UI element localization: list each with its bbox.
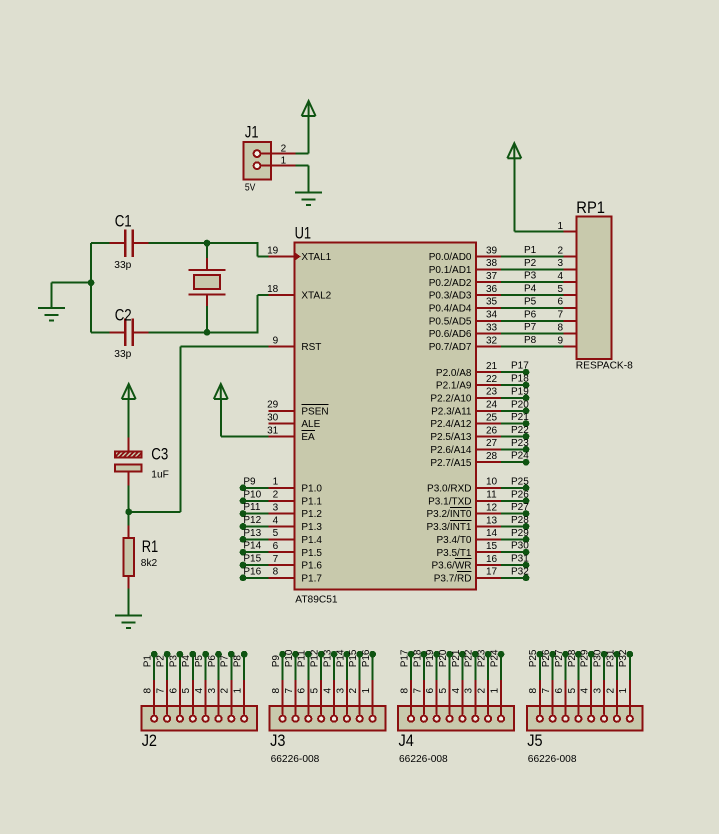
svg-text:P24: P24 [511,451,529,462]
RP1 pin 2 stub [564,256,577,258]
svg-text:1: 1 [361,688,372,694]
svg-text:7: 7 [273,554,279,565]
J5 pin 6 lead [565,679,567,715]
J3 pin 6 lead [307,679,309,715]
pin 38 P0.1 stub [476,268,502,270]
wire net P15 [359,654,361,680]
svg-text:P1.0: P1.0 [301,484,322,495]
svg-text:33p: 33p [114,349,131,360]
node P22 [523,433,530,440]
svg-text:P2.6/A14: P2.6/A14 [430,445,472,456]
wire net P26 [552,654,554,680]
pin 24 P2.3 stub [476,410,502,412]
svg-text:P1: P1 [524,245,537,256]
wire net P9 [243,487,269,489]
pin 32 P0.7 stub [476,346,502,348]
pin 19 XTAL1 stub [269,256,295,258]
wire net P26 [501,500,526,502]
J3 pin 2 circle [357,716,363,722]
svg-text:5V: 5V [245,183,256,194]
J2 pin 1 circle [241,716,247,722]
J4 pin 1 circle [498,716,504,722]
wire net P32 [501,577,526,579]
svg-text:P18: P18 [412,649,423,667]
wire net P29 [501,538,526,540]
J2 pin 5 lead [192,679,194,715]
node P16 [240,575,247,582]
node junction C2/crystal [204,329,211,336]
J5 pin 7 circle [550,716,556,722]
wire net P25 [501,487,526,489]
svg-text:P32: P32 [618,649,629,667]
wire net P27 [565,654,567,680]
svg-text:27: 27 [486,438,498,449]
RP1 pin 1 stub [564,230,577,232]
svg-text:P2.7/A15: P2.7/A15 [430,458,472,469]
svg-text:J3: J3 [270,731,285,750]
node P4 [189,651,196,658]
svg-text:4: 4 [273,515,279,526]
node P18 [421,651,428,658]
wire net P23 [487,654,489,680]
overline P3.3/INT1 [450,520,472,522]
J4 pin 2 lead [487,679,489,715]
svg-text:P28: P28 [567,649,578,667]
wire net P7 to RP1 [501,333,564,335]
wire net P7 [230,654,232,680]
RP1 pin 8 stub [564,333,577,335]
pin 39 P0.0 stub [476,256,502,258]
J2 pin 6 lead [179,679,181,715]
svg-text:66226-008: 66226-008 [399,754,448,765]
wire net P17 [410,654,412,680]
node P27 [523,510,530,517]
wire left vertical C1-C2 [90,243,92,332]
svg-text:P12: P12 [310,649,321,667]
svg-text:R1: R1 [142,537,159,556]
J3 pin 4 circle [331,716,337,722]
node P30 [523,549,530,556]
svg-text:P10: P10 [243,489,261,500]
wire to left ground [52,282,91,284]
pin 2 P1.1 stub [269,500,295,502]
node P5 [202,651,209,658]
svg-text:P15: P15 [348,649,359,667]
svg-text:P3.3/INT1: P3.3/INT1 [426,522,471,533]
svg-text:5: 5 [310,688,321,694]
node P10 [240,497,247,504]
wire net P14 [243,551,269,553]
node P1 [151,651,158,658]
J3 pin 8 lead [282,679,284,715]
node P13 [240,536,247,543]
J4 pin 6 lead [436,679,438,715]
wire net P8 to RP1 [501,346,564,348]
pin 13 P3.3 stub [476,526,502,528]
svg-text:7: 7 [284,688,295,694]
svg-text:J1: J1 [245,122,259,141]
svg-text:U1: U1 [295,224,312,243]
svg-text:P20: P20 [511,399,529,410]
J4 pin 5 circle [447,716,453,722]
svg-text:P2.2/A10: P2.2/A10 [430,394,472,405]
wire net P12 [243,526,269,528]
pin 29 PSEN stub [269,410,295,412]
svg-text:2: 2 [220,688,231,694]
wire net P6 [218,654,220,680]
svg-text:P5: P5 [524,296,537,307]
wire R1 to ground [128,589,130,616]
svg-text:RST: RST [301,342,321,353]
J4 pin 8 lead [410,679,412,715]
pin 26 P2.5 stub [476,436,502,438]
svg-text:P25: P25 [511,476,529,487]
svg-text:P0.4/AD4: P0.4/AD4 [429,304,472,315]
svg-text:P28: P28 [511,515,529,526]
svg-text:P1.2: P1.2 [301,509,322,520]
pin 8 P1.7 stub [269,577,295,579]
J4 pin 1 lead [500,679,502,715]
RP1 pin 4 stub [564,281,577,283]
connector J5 [527,706,643,765]
svg-text:P3.6/WR: P3.6/WR [431,561,471,572]
svg-text:4: 4 [557,271,563,282]
svg-text:P1: P1 [143,655,154,668]
connector J3 [270,706,386,765]
ground (left) [38,308,65,321]
svg-text:P1.5: P1.5 [301,548,322,559]
node P17 [523,369,530,376]
svg-text:3: 3 [335,688,346,694]
svg-text:P0.3/AD3: P0.3/AD3 [429,291,472,302]
svg-text:AT89C51: AT89C51 [295,595,338,606]
svg-text:RESPACK-8: RESPACK-8 [576,361,633,372]
svg-text:66226-008: 66226-008 [271,754,320,765]
node P12 [240,523,247,530]
wire net P8 [243,654,245,680]
wire C1 row [91,242,110,244]
svg-text:1uF: 1uF [151,470,169,481]
svg-text:P31: P31 [511,554,529,565]
J1 pin 2 lead [260,153,296,155]
svg-text:10: 10 [486,477,498,488]
svg-text:23: 23 [486,387,498,398]
wire net P9 [282,654,284,680]
svg-text:P24: P24 [489,649,500,667]
J2 pin 2 lead [230,679,232,715]
svg-text:5: 5 [567,688,578,694]
svg-text:3: 3 [464,688,475,694]
J2 pin 3 lead [218,679,220,715]
wire net P5 [205,654,207,680]
J1 pin 2 circle [254,150,261,157]
pin 23 P2.2 stub [476,397,502,399]
svg-text:8: 8 [557,322,563,333]
svg-text:J2: J2 [142,731,157,750]
svg-text:P6: P6 [207,655,218,668]
svg-text:8: 8 [399,688,410,694]
svg-text:P19: P19 [425,649,436,667]
svg-text:P2: P2 [156,655,167,668]
J3 pin 5 circle [318,716,324,722]
J4 pin 7 circle [421,716,427,722]
wire net P1 to RP1 [501,256,564,258]
svg-text:P3.4/T0: P3.4/T0 [436,535,471,546]
svg-text:29: 29 [267,400,279,411]
svg-text:3: 3 [593,688,604,694]
pin 10 P3.0 stub [476,487,502,489]
wire net P24 [500,654,502,680]
svg-text:4: 4 [451,688,462,694]
svg-text:P29: P29 [511,528,529,539]
node P23 [485,651,492,658]
svg-text:8: 8 [528,688,539,694]
node P22 [472,651,479,658]
svg-text:P29: P29 [580,649,591,667]
J2 pin 8 circle [151,716,157,722]
J1 pin 1 circle [254,162,261,169]
wire net P30 [603,654,605,680]
node P14 [344,651,351,658]
pin 21 P2.0 stub [476,371,502,373]
svg-text:P23: P23 [477,649,488,667]
J2 pin 7 lead [166,679,168,715]
svg-text:26: 26 [486,425,498,436]
svg-text:P13: P13 [322,649,333,667]
svg-text:XTAL1: XTAL1 [301,252,331,263]
connector J4 [398,706,514,765]
wire net P28 [577,654,579,680]
node P21 [459,651,466,658]
J5 pin 3 lead [603,679,605,715]
J2 pin 7 circle [164,716,170,722]
svg-text:P2: P2 [524,258,537,269]
pin 17 P3.7 stub [476,577,502,579]
svg-text:J4: J4 [399,731,414,750]
pin 9 RST stub [269,346,295,348]
PSEN overline [301,404,328,406]
svg-text:P17: P17 [511,361,529,372]
svg-text:7: 7 [557,310,563,321]
svg-text:7: 7 [412,688,423,694]
J2 pin 5 circle [190,716,196,722]
svg-text:2: 2 [273,490,279,501]
J3 pin 2 lead [359,679,361,715]
node P9 [279,651,286,658]
node P25 [523,485,530,492]
J5 pin 3 circle [601,716,607,722]
svg-text:P18: P18 [511,374,529,385]
J5 pin 7 lead [552,679,554,715]
node P19 [433,651,440,658]
svg-text:P9: P9 [243,476,256,487]
node P6 [215,651,222,658]
svg-text:P20: P20 [438,649,449,667]
svg-text:P26: P26 [541,649,552,667]
RP1 pin 9 stub [564,346,577,348]
svg-text:P5: P5 [194,655,205,668]
power VCC arrow (RP1) [507,143,521,158]
J5 pin 1 circle [627,716,633,722]
ground (J1) [295,193,322,206]
svg-text:P14: P14 [335,649,346,667]
svg-text:P4: P4 [524,284,537,295]
IC U1 AT89C51 body [294,224,476,606]
wire net P23 [501,448,526,450]
svg-text:1: 1 [618,688,629,694]
capacitor C3 (electrolytic) [111,438,169,487]
svg-text:5: 5 [273,528,279,539]
wire J1 pin1 to ground [296,165,309,167]
svg-text:P1.4: P1.4 [301,535,322,546]
svg-text:8: 8 [143,688,154,694]
node P17 [408,651,415,658]
wire net P6 to RP1 [501,320,564,322]
node P26 [523,497,530,504]
svg-text:C3: C3 [151,445,168,464]
wire net P20 [449,654,451,680]
svg-text:P30: P30 [593,649,604,667]
svg-text:RP1: RP1 [576,198,605,217]
wire arrow to EA [220,399,222,437]
svg-text:13: 13 [486,515,498,526]
node P28 [523,523,530,530]
pin 34 P0.5 stub [476,320,502,322]
svg-text:36: 36 [486,284,498,295]
svg-text:EA: EA [301,432,315,443]
wire net P1 [153,654,155,680]
svg-text:33p: 33p [114,260,131,271]
wire net P18 [423,654,425,680]
svg-text:4: 4 [580,688,591,694]
node P27 [562,651,569,658]
wire net P16 [372,654,374,680]
svg-text:P26: P26 [511,489,529,500]
svg-text:6: 6 [297,688,308,694]
svg-text:6: 6 [273,541,279,552]
svg-text:6: 6 [168,688,179,694]
pin 31 EA stub [269,436,295,438]
svg-text:P0.0/AD0: P0.0/AD0 [429,252,472,263]
svg-text:P21: P21 [511,412,529,423]
svg-text:19: 19 [267,245,279,256]
J4 pin 6 circle [434,716,440,722]
crystal X1 [189,257,226,307]
node junction C3/R1/RST [125,509,132,516]
J4 pin 8 circle [408,716,414,722]
svg-text:6: 6 [554,688,565,694]
svg-text:P14: P14 [243,541,261,552]
J2 pin 4 circle [203,716,209,722]
pin 25 P2.4 stub [476,423,502,425]
pin 14 P3.4 stub [476,538,502,540]
wire net P2 [166,654,168,680]
svg-text:1: 1 [281,156,287,167]
capacitor C1 [109,212,149,271]
svg-text:3: 3 [557,258,563,269]
svg-text:P3.1/TXD: P3.1/TXD [428,496,471,507]
svg-text:P8: P8 [524,335,537,346]
svg-text:5: 5 [438,688,449,694]
svg-text:P13: P13 [243,528,261,539]
svg-text:21: 21 [486,361,498,372]
svg-text:18: 18 [267,284,279,295]
svg-text:J5: J5 [527,731,542,750]
node P24 [498,651,505,658]
wire net P27 [501,513,526,515]
svg-text:1: 1 [557,221,563,232]
wire net P21 [501,423,526,425]
J5 pin 6 circle [562,716,568,722]
svg-text:P2.4/A12: P2.4/A12 [430,419,472,430]
svg-text:P12: P12 [243,515,261,526]
J4 pin 2 circle [485,716,491,722]
J5 pin 5 lead [577,679,579,715]
J3 pin 7 lead [295,679,297,715]
wire net P18 [501,384,526,386]
svg-text:P16: P16 [361,649,372,667]
J5 pin 8 circle [537,716,543,722]
pin 30 ALE stub [269,423,295,425]
svg-text:P0.1/AD1: P0.1/AD1 [429,265,472,276]
svg-text:3: 3 [207,688,218,694]
J2 pin 2 circle [228,716,234,722]
svg-text:P1.6: P1.6 [301,561,322,572]
overline P3.6/WR [455,558,472,560]
node P32 [626,651,633,658]
node P26 [549,651,556,658]
wire net P10 [295,654,297,680]
svg-text:PSEN: PSEN [301,406,328,417]
node P19 [523,395,530,402]
wire net P22 [474,654,476,680]
svg-text:XTAL2: XTAL2 [301,291,331,302]
svg-text:16: 16 [486,554,498,565]
svg-text:P7: P7 [524,322,537,333]
pin 33 P0.6 stub [476,333,502,335]
svg-text:P0.7/AD7: P0.7/AD7 [429,342,472,353]
svg-text:6: 6 [425,688,436,694]
pin 7 P1.6 stub [269,564,295,566]
svg-text:P3.5/T1: P3.5/T1 [436,548,471,559]
svg-text:P2.1/A9: P2.1/A9 [436,381,472,392]
svg-text:P15: P15 [243,554,261,565]
node P13 [331,651,338,658]
J4 pin 4 lead [461,679,463,715]
svg-text:11: 11 [486,490,497,501]
J5 pin 2 lead [616,679,618,715]
svg-text:P6: P6 [524,309,537,320]
svg-text:P1.3: P1.3 [301,522,322,533]
wire net P16 [243,577,269,579]
svg-text:P3: P3 [524,271,537,282]
svg-text:2: 2 [605,688,616,694]
wire net P5 to RP1 [501,307,564,309]
pin 5 P1.4 stub [269,538,295,540]
node P29 [523,536,530,543]
wire net P21 [461,654,463,680]
svg-text:9: 9 [557,335,563,346]
svg-text:P2.3/A11: P2.3/A11 [431,406,472,417]
svg-text:24: 24 [486,400,498,411]
node P23 [523,446,530,453]
svg-text:P3.2/INT0: P3.2/INT0 [426,509,471,520]
pin 15 P3.5 stub [476,551,502,553]
svg-text:2: 2 [477,688,488,694]
J3 pin 7 circle [292,716,298,722]
svg-text:5: 5 [557,284,563,295]
RP1 pin 3 stub [564,268,577,270]
